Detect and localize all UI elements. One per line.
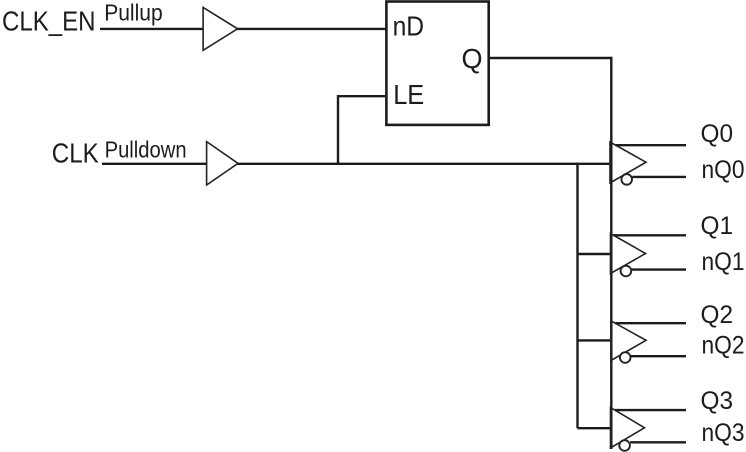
svg-text:nQ0: nQ0 [702, 156, 745, 184]
svg-text:Q3: Q3 [701, 387, 734, 415]
output driver U4 [610, 142, 686, 185]
label nQ2 [702, 332, 745, 360]
svg-text:CLK: CLK [52, 138, 99, 169]
label Q0 [701, 120, 734, 148]
svg-text:CLK_EN: CLK_EN [2, 6, 96, 37]
buffer U3 (pulldown input buffer) [207, 142, 238, 185]
label Q1 [701, 212, 734, 240]
svg-text:Q0: Q0 [701, 120, 734, 148]
svg-text:LE: LE [393, 79, 424, 110]
node CLK_EN [2, 6, 96, 37]
svg-text:nD: nD [393, 11, 425, 42]
pin label LE [393, 79, 424, 110]
wire stub to driver 2 [578, 253, 611, 255]
wire stub to driver 3 [578, 339, 611, 341]
svg-text:Pulldown: Pulldown [105, 137, 187, 163]
wire CLK branch vertical [576, 163, 578, 429]
wire Q output vertical bus [610, 57, 612, 449]
svg-text:Q2: Q2 [701, 301, 734, 329]
pin label nD [393, 11, 425, 42]
wire CLK to buffer [102, 163, 207, 165]
svg-text:nQ2: nQ2 [702, 332, 745, 360]
label Pullup [104, 0, 163, 26]
node CLK [52, 138, 99, 169]
wire stub to driver 4 [578, 427, 611, 429]
wire CLK_EN to buffer [100, 28, 204, 30]
buffer U1 (pullup input buffer) [203, 7, 238, 50]
svg-text:Q: Q [462, 43, 483, 74]
label nQ1 [702, 248, 745, 276]
wire buffer U1 to nD [237, 28, 386, 30]
wire LE to CLK net [338, 96, 386, 164]
wire CLK distribution [237, 163, 610, 165]
pin label Q [462, 43, 483, 74]
label Q2 [701, 301, 734, 329]
output driver U7 [611, 408, 687, 451]
label nQ0 [702, 156, 745, 184]
wire Q output horizontal [489, 57, 612, 59]
output driver U5 [611, 234, 687, 277]
latch U2 [386, 2, 488, 125]
label nQ3 [702, 419, 745, 447]
label Q3 [701, 387, 734, 415]
svg-text:nQ1: nQ1 [702, 248, 745, 276]
label Pulldown [105, 137, 187, 163]
output driver U6 [611, 321, 686, 363]
svg-text:Pullup: Pullup [104, 0, 163, 26]
svg-text:nQ3: nQ3 [702, 419, 745, 447]
svg-text:Q1: Q1 [701, 212, 734, 240]
